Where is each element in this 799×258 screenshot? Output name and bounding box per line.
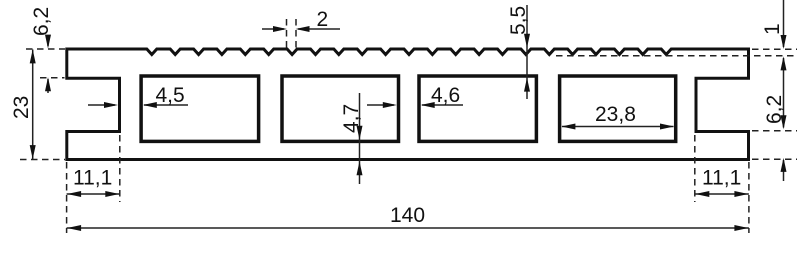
svg-text:4,7: 4,7 — [340, 104, 363, 133]
dimension 23,8 line — [562, 126, 674, 128]
dimension 2 right arrow — [298, 28, 340, 30]
dimension 140 line — [67, 227, 749, 229]
svg-text:1: 1 — [761, 23, 784, 35]
groove extension lines dashed — [286, 19, 288, 48]
dimension 6,2 right lower arrow — [783, 160, 785, 181]
dimension 23 arrowheads — [30, 49, 36, 63]
dimension 5,5 line — [526, 5, 528, 99]
dimension 11,1 right line — [695, 193, 749, 195]
svg-text:4,6: 4,6 — [431, 84, 460, 107]
extension line top-left dashed — [26, 48, 65, 50]
dimension 2 left arrow — [262, 28, 284, 30]
dimension 4,6 left arrow — [367, 104, 394, 106]
dimension 6,2 left lower arrow — [47, 79, 49, 93]
dimension 5,5 lower arrow — [524, 78, 530, 92]
dimension 4,5 left arrow — [88, 104, 115, 106]
extension line left notch top dashed — [40, 77, 65, 79]
chamber 2 — [282, 76, 399, 141]
extension bottom edge right dashed — [752, 158, 797, 160]
extension groove bottom dashed — [556, 55, 797, 57]
profile outline with serrated top surface — [67, 49, 749, 160]
svg-text:4,5: 4,5 — [156, 84, 185, 107]
extension left edge dashed — [66, 162, 68, 233]
svg-text:5,5: 5,5 — [507, 6, 530, 35]
extension right edge dashed — [748, 162, 750, 233]
dimension 23 line — [32, 50, 34, 160]
dimension 4,5 right arrow — [144, 104, 188, 106]
chamber 3 — [419, 76, 536, 141]
svg-text:140: 140 — [390, 204, 425, 227]
dimension 6,2 right line with arrows — [783, 58, 785, 128]
extension left notch wall dashed — [119, 135, 121, 202]
extension right notch bottom dashed — [752, 130, 797, 132]
extension line bottom-left dashed — [20, 159, 65, 161]
svg-text:6,2: 6,2 — [30, 7, 53, 36]
extension right notch wall dashed — [694, 135, 696, 202]
dimension 6,2 left upper arrow — [47, 37, 49, 47]
extension top surface right dashed — [752, 48, 797, 50]
dimension 1 line — [783, 0, 785, 47]
svg-text:23: 23 — [10, 96, 33, 119]
dimension 11,1 left line — [67, 193, 120, 195]
chamber 1 — [141, 76, 259, 141]
svg-text:2: 2 — [317, 8, 329, 31]
svg-text:11,1: 11,1 — [73, 167, 112, 190]
svg-text:23,8: 23,8 — [595, 103, 636, 126]
chamber 4 — [560, 76, 676, 141]
dimension 4,6 right arrow — [422, 104, 463, 106]
dimension 4,7 lower arrow — [357, 161, 363, 175]
svg-text:11,1: 11,1 — [702, 167, 741, 190]
svg-text:6,2: 6,2 — [763, 95, 786, 124]
dimension 4,7 line — [359, 93, 361, 184]
